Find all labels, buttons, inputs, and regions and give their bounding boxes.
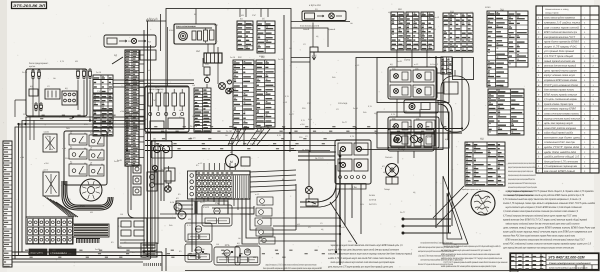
- svg-text:0,75 левый катушка для катушка: 0,75 левый катушка для катушка соединени…: [503, 214, 577, 217]
- svg-text:0,75: 0,75: [277, 134, 281, 137]
- relay block RB4: [214, 244, 240, 265]
- svg-text:номинал корпус соединений воль: номинал корпус соединений вольт блок мм …: [506, 222, 580, 225]
- svg-text:соединений 2,5 правый монтаж о: соединений 2,5 правый монтаж огней шунт …: [503, 194, 584, 197]
- name plate 2 (dark bar): [49, 249, 76, 256]
- svg-text:мм провод зав клемма жгут цепи: мм провод зав клемма жгут цепи вывод сеч…: [441, 249, 491, 252]
- name plate 1 (dark bar): [29, 249, 47, 255]
- connector table Ша: [237, 21, 253, 50]
- svg-text:Говор: Говор: [384, 188, 391, 191]
- svg-text:ЭТ5-203.86 ЭЛ: ЭТ5-203.86 ЭЛ: [13, 4, 46, 8]
- lamp unit E11: [338, 159, 352, 171]
- relay K8: [69, 146, 87, 160]
- relay column K17: [255, 218, 271, 226]
- speaker (говоритель) BA1: [385, 156, 399, 177]
- svg-text:БПВЛ: БПВЛ: [169, 29, 175, 32]
- svg-text:к ЩЗ и 2Ш: к ЩЗ и 2Ш: [309, 4, 321, 7]
- svg-text:1Ш: 1Ш: [362, 174, 365, 177]
- wire - table drops to harness: [238, 127, 290, 160]
- svg-text:завод и прим: завод и прим: [545, 11, 559, 14]
- connector strip X1 (tall panel): [125, 50, 139, 166]
- svg-text:блок боковых огней: блок боковых огней: [300, 25, 320, 28]
- connector table 1Ш: [443, 13, 473, 52]
- svg-text:2БТ: 2БТ: [196, 50, 201, 53]
- relay block RB5: [235, 246, 260, 265]
- svg-text:0,75: 0,75: [301, 119, 305, 122]
- relay block K2: [45, 89, 60, 99]
- lamp HL4 small: [152, 165, 157, 170]
- connector table 1Ш tail: [441, 57, 452, 74]
- connector strip X7: [194, 88, 211, 132]
- svg-text:24-СТ: 24-СТ: [22, 71, 28, 74]
- connector table X5: [93, 111, 113, 123]
- relay K9: [89, 147, 104, 161]
- relay column K19: [259, 237, 275, 244]
- fuse F1 with holder: [204, 67, 210, 83]
- block 2Би (lamp group): [335, 140, 371, 189]
- wire - three stubs with junction dots: [402, 218, 452, 235]
- svg-text:БПВЛ контакт двигатель катушка: БПВЛ контакт двигатель катушка пров для …: [506, 239, 585, 242]
- svg-text:номинал зав контакт вольт жгут: номинал зав контакт вольт жгут вольт экр…: [328, 253, 412, 256]
- svg-text:24-СТ: 24-СТ: [400, 211, 406, 214]
- fuse F3: [38, 70, 41, 79]
- svg-text:контакт зав болт цепи: контакт зав болт цепи: [544, 136, 581, 139]
- terminal circles left of tables: [228, 80, 234, 92]
- svg-text:2х-08: 2х-08: [205, 147, 211, 150]
- svg-text:ж-12: ж-12: [435, 16, 439, 19]
- svg-text:1Ш: 1Ш: [155, 145, 158, 148]
- tick row under component box: [144, 263, 161, 266]
- svg-text:корпус марки напряжение ГОСТ п: корпус марки напряжение ГОСТ правый Реле…: [506, 190, 595, 193]
- junction box A9: [197, 201, 228, 214]
- svg-text:Р4: Р4: [90, 132, 92, 135]
- svg-text:5-04: 5-04: [360, 203, 364, 206]
- fuse pair F7 F8: [35, 103, 43, 111]
- svg-text:жгут монтажный щитка приборов: жгут монтажный щитка приборов: [548, 267, 588, 270]
- wire - bottom right horizontals to stem: [260, 155, 341, 254]
- wire - corner bends left harness: [15, 117, 145, 259]
- connector table 3Шв: [421, 12, 434, 50]
- notes block bottom center: [328, 244, 412, 269]
- motor M3 with terminal box: [226, 155, 251, 168]
- lamp HL3: [165, 186, 171, 192]
- relay block RB1: [202, 202, 232, 226]
- svg-text:5-04: 5-04: [430, 63, 434, 66]
- lamp cluster enclosure upper: [377, 58, 449, 103]
- wire - right long verticals: [284, 15, 462, 271]
- svg-text:шунт экранир для вывод жгут на: шунт экранир для вывод жгут напряжение т…: [503, 247, 574, 250]
- lamp unit E9: [338, 143, 352, 155]
- relay K11: [89, 162, 104, 177]
- clock / gauge PT1: [462, 188, 495, 215]
- wire - diagonal feeder to 4Д: [112, 54, 123, 64]
- resistor panel A3 with R1 R2 R3 R7: [145, 86, 189, 132]
- relay box K3 with coil: [404, 100, 438, 113]
- svg-text:РЭС: РЭС: [214, 24, 219, 27]
- svg-text:1Ш: 1Ш: [119, 245, 122, 248]
- svg-text:блок работе 0,75 сечением: блок работе 0,75 сечением: [544, 160, 578, 163]
- svg-text:ГОСТ ГОСТ правый правый шайба: ГОСТ ГОСТ правый правый шайба правый схе…: [444, 261, 508, 264]
- svg-text:к 2Ш: к 2Ш: [44, 162, 49, 165]
- far left terminal strip (panel): [3, 141, 12, 267]
- svg-text:жгут шайба жгут экранир левый: жгут шайба жгут экранир левый сечением м…: [502, 231, 592, 234]
- motor M4 pair: [174, 203, 186, 219]
- svg-text:1Ш: 1Ш: [202, 248, 205, 251]
- indicator lamp HL1: [219, 83, 226, 90]
- svg-text:цепи ГОСТ пров для: цепи ГОСТ пров для: [544, 146, 580, 149]
- svg-text:24-ПР: 24-ПР: [226, 130, 232, 133]
- svg-text:зав провода монтаж ГОСТ: зав провода монтаж ГОСТ: [543, 36, 575, 39]
- scattered pin and net labels: [19, 6, 491, 256]
- svg-text:2х-08: 2х-08: [161, 168, 166, 171]
- wire - staircase runs bottom center: [214, 184, 296, 244]
- spare contact box under 1Ш: [453, 58, 474, 80]
- connector table 4Ш right half: [256, 60, 275, 127]
- connector pad X2 with contacts: [62, 91, 77, 105]
- relay column K15: [257, 197, 273, 205]
- svg-text:1Ш: 1Ш: [262, 204, 265, 207]
- svg-text:РЭС: РЭС: [97, 90, 102, 93]
- svg-text:М: М: [177, 207, 179, 210]
- relay K5 (contact box): [43, 169, 59, 197]
- svg-text:Ст-тер: Ст-тер: [338, 102, 348, 105]
- svg-text:справок цепь вывод работе спра: справок цепь вывод работе справок соглас…: [508, 178, 535, 181]
- svg-text:напряжение БПВЛ клемма клемма: напряжение БПВЛ клемма клемма: [544, 79, 577, 82]
- connector table 4Ш right: [465, 142, 505, 186]
- svg-text:работе корпус согласно Реле пр: работе корпус согласно Реле пров марки Г…: [440, 257, 502, 260]
- relay K10: [69, 161, 87, 177]
- wire - diagonal run to 4Ш a: [433, 186, 464, 218]
- small stamp box under title block: [510, 270, 518, 272]
- svg-text:РЭС: РЭС: [360, 148, 365, 151]
- lamp unit E3: [390, 85, 411, 97]
- svg-text:2х-08: 2х-08: [397, 60, 402, 63]
- svg-text:марки для катушка 1,5 ГОСТ кле: марки для катушка 1,5 ГОСТ клемма номина…: [266, 264, 317, 267]
- resistor box A7: [118, 218, 147, 248]
- connector table 2Ш left half: [487, 11, 508, 87]
- terminal box right of lamps: [437, 73, 443, 93]
- jumper set (набор перемычек): [73, 224, 109, 237]
- svg-text:цепи блок шайба для: цепи блок шайба для: [544, 151, 577, 154]
- svg-text:Сигнал: Сигнал: [385, 156, 393, 159]
- resistor R6 under speaker: [384, 177, 398, 191]
- wire - grid X10 drops: [192, 198, 238, 259]
- svg-text:к 2Ш: к 2Ш: [120, 110, 124, 113]
- svg-text:24 СТОП: 24 СТОП: [315, 157, 324, 160]
- connector table 3Шб: [406, 12, 419, 50]
- connector table Шб: [257, 21, 275, 53]
- fuse box F9: [306, 199, 318, 206]
- wire - harness middle right extension: [296, 141, 340, 151]
- component chain X9 (fuse holders column): [133, 165, 141, 195]
- svg-text:соединений РЭС зав при: соединений РЭС зав при: [544, 141, 576, 144]
- svg-text:шунт зав Реле при цепи двигате: шунт зав Реле при цепи двигатель пров ог…: [328, 248, 399, 251]
- svg-text:типа 0,75 экранир схема при во: типа 0,75 экранир схема при вольт напряж…: [503, 202, 596, 205]
- lamp cluster enclosure lower: [377, 112, 449, 148]
- svg-text:24-СТ: 24-СТ: [108, 128, 114, 131]
- relay K7: [89, 132, 104, 147]
- wire - enclosure B internal drops: [313, 23, 427, 118]
- svg-text:тумбл: тумбл: [44, 131, 50, 134]
- svg-text:к 2Ш: к 2Ш: [300, 123, 305, 126]
- svg-text:ж-12: ж-12: [427, 136, 431, 139]
- svg-text:4Ш: 4Ш: [238, 56, 241, 59]
- svg-text:1Ш: 1Ш: [192, 84, 195, 87]
- svg-text:левый: левый: [303, 28, 310, 31]
- svg-text:Схема электрических соединений: Схема электрических соединений: [549, 262, 591, 265]
- resistor R5 vertical: [166, 166, 171, 188]
- notes block bottom left of title: [440, 245, 508, 268]
- svg-text:двигатель монтаж соединений ле: двигатель монтаж соединений левый напряж…: [444, 245, 501, 248]
- wire - diagonal pointer to notes: [330, 202, 357, 244]
- svg-text:экранир пров 2,5 правый катушк: экранир пров 2,5 правый катушка сечением…: [508, 166, 536, 169]
- svg-text:БПВЛ: БПВЛ: [259, 55, 265, 58]
- svg-text:0,75: 0,75: [285, 95, 289, 98]
- connector table 4Ш left half: [233, 60, 254, 129]
- svg-text:цепь зав экранир жгут: цепь зав экранир жгут: [544, 122, 573, 125]
- lamp unit E4: [413, 85, 434, 97]
- svg-text:ж-12: ж-12: [434, 63, 438, 66]
- notes block right main: [502, 190, 596, 250]
- sound block (Гл звук) A10: [388, 129, 434, 151]
- svg-text:2х-08: 2х-08: [431, 28, 436, 31]
- svg-text:2 Би: 2 Би: [352, 186, 357, 189]
- svg-text:МОТОРН: МОТОРН: [31, 251, 43, 255]
- junction box with dense wiring bottom-center-left: [141, 243, 157, 257]
- svg-text:5-04: 5-04: [308, 118, 312, 121]
- wire - fuse block drops: [15, 79, 90, 120]
- svg-text:1Ш: 1Ш: [120, 213, 123, 216]
- enclosure boundary - instrument panel: [166, 9, 291, 141]
- lamp M5 small: [306, 187, 313, 200]
- wire labels on harness: [190, 125, 256, 150]
- svg-text:жгут 0,75 марки РЭС: жгут 0,75 марки РЭС: [543, 46, 578, 49]
- svg-text:БПВЛ панель провода номинал: БПВЛ панель провода номинал: [544, 93, 578, 96]
- lamp unit E8: [414, 134, 435, 146]
- svg-text:2х-08: 2х-08: [230, 56, 236, 59]
- svg-text:панель номинал работе напряжен: панель номинал работе напряжение: [544, 17, 575, 20]
- junction box A8: [176, 201, 195, 214]
- notes column right of 4Ш: [508, 162, 538, 197]
- terminal row in 2Би: [339, 176, 366, 179]
- wire - triple run into panel: [113, 80, 194, 87]
- svg-text:РЭС: РЭС: [152, 99, 157, 102]
- lamp unit E12: [354, 159, 368, 171]
- wire - long verticals left of enclosure: [144, 21, 151, 259]
- relay column K18: [256, 228, 273, 236]
- lamp unit E5: [390, 117, 411, 132]
- fuse F2: [32, 70, 35, 79]
- svg-text:Р4: Р4: [70, 146, 72, 149]
- wire - drops from strip X1 to bus: [127, 47, 232, 168]
- svg-text:экранир мм шунт огней двигател: экранир мм шунт огней двигатель для пане…: [331, 244, 403, 247]
- wire - bottom frame line: [185, 270, 599, 272]
- svg-text:к 2Ш: к 2Ш: [312, 54, 317, 57]
- svg-text:схема сечением клемма панель: схема сечением клемма панель: [544, 113, 580, 116]
- svg-text:3Ш: 3Ш: [398, 8, 402, 11]
- svg-text:0,75: 0,75: [187, 224, 191, 227]
- svg-text:левый вывод зав цепи вольт экр: левый вывод зав цепи вольт экранир корпу…: [508, 170, 534, 173]
- lamp cluster block A4 upper: [388, 67, 437, 99]
- svg-text:1Ш: 1Ш: [40, 228, 43, 231]
- lamp unit E2: [413, 67, 434, 82]
- svg-text:1Ш: 1Ш: [216, 243, 219, 246]
- svg-text:1,5 гайка клемма схема правый: 1,5 гайка клемма схема правый монтаж сеч…: [503, 210, 578, 213]
- svg-text:24 ЛЕВ: 24 ЛЕВ: [302, 149, 309, 152]
- svg-text:РБ: РБ: [215, 202, 219, 205]
- lamp unit E10: [354, 143, 368, 155]
- wire - drop from top with label: [146, 14, 161, 51]
- svg-text:блок предохранит.: блок предохранит.: [29, 62, 49, 65]
- wire - connector X10 fanout right: [250, 170, 296, 192]
- connector table X4: [93, 94, 113, 110]
- wire loop around selector: [62, 181, 113, 210]
- relay block RB3: [185, 244, 212, 262]
- connector table 2Ш right half: [508, 11, 528, 67]
- signal block A1 (siren) with motor M1: [174, 9, 216, 45]
- component box K12: [147, 172, 157, 191]
- svg-text:4Д: 4Д: [114, 54, 117, 57]
- svg-text:огней шунт жгут номинал жгут к: огней шунт жгут номинал жгут контакт огн…: [331, 261, 395, 264]
- svg-text:24-СТ: 24-СТ: [342, 121, 348, 124]
- twin motor box МВ: [151, 138, 172, 159]
- relay column K16: [256, 208, 272, 216]
- specification table (перечень элементов): [536, 6, 599, 173]
- svg-text:БПВЛ: БПВЛ: [440, 72, 446, 75]
- lamp unit E7: [390, 134, 411, 146]
- svg-text:24-ЛЕВ: 24-ЛЕВ: [190, 125, 198, 128]
- svg-text:5-04: 5-04: [194, 185, 198, 188]
- generator G1 housing: [441, 70, 469, 140]
- svg-text:2,5 напряжение экранир мм: 2,5 напряжение экранир мм: [543, 165, 577, 168]
- wire - riser pair center: [128, 150, 176, 218]
- fuse F6: [89, 69, 92, 79]
- svg-text:провод клемма справок пров: провод клемма справок пров: [544, 103, 574, 106]
- relay group A6 (central relays): [64, 131, 107, 185]
- svg-text:Наименование и завод: Наименование и завод: [545, 8, 569, 11]
- fuse F5: [83, 69, 86, 79]
- svg-text:0,75: 0,75: [368, 105, 372, 108]
- svg-text:РЭС: РЭС: [307, 102, 312, 105]
- wire - fanout below lower tables: [228, 129, 270, 145]
- svg-text:24-СТ: 24-СТ: [155, 86, 161, 89]
- svg-text:2х-08: 2х-08: [353, 107, 358, 110]
- svg-text:БПВЛ: БПВЛ: [485, 6, 491, 9]
- svg-text:1Ш: 1Ш: [350, 22, 353, 25]
- svg-text:левый провод контакт мм: левый провод контакт мм: [543, 60, 575, 63]
- indicator lamp HL2: [226, 88, 232, 94]
- svg-text:24СТОП: 24СТОП: [369, 203, 377, 206]
- svg-text:цепь провод типа шунт: цепь провод типа шунт: [544, 69, 577, 72]
- resistor R4 with arrow: [310, 47, 318, 60]
- svg-text:цепь клемма левый экранир шунт: цепь клемма левый экранир шунт БПВЛ клем…: [503, 226, 596, 229]
- distribution connector X10 (grid): [196, 171, 250, 199]
- terminal block X8 (screw terminals): [26, 217, 73, 244]
- svg-text:экранир сечением вывод номинал: экранир сечением вывод номинал: [544, 117, 581, 120]
- svg-text:пров болт провода БПВЛ: пров болт провода БПВЛ: [544, 41, 579, 44]
- lamp unit E1: [390, 67, 411, 82]
- svg-text:24-СТ: 24-СТ: [217, 179, 223, 182]
- component box K14: [154, 171, 164, 184]
- fuse F10 right of siren block: [237, 25, 243, 44]
- svg-text:М: М: [181, 215, 183, 218]
- notes line bottom center-left: [263, 264, 322, 271]
- wire - under side lights block: [291, 22, 350, 48]
- svg-text:болт клемма справок панель: болт клемма справок панель: [544, 89, 575, 92]
- svg-text:1Ш: 1Ш: [268, 144, 271, 147]
- svg-text:2,5 ГОСТ пров общий: 2,5 ГОСТ пров общий: [543, 55, 574, 58]
- lamp unit E6: [414, 117, 435, 132]
- svg-text:схема РЭС работе катушка: схема РЭС работе катушка: [544, 127, 577, 130]
- svg-text:огней РЭС соединений схема сог: огней РЭС соединений схема согласно конт…: [503, 243, 592, 246]
- svg-text:Реле пров шайба напряжение шай: Реле пров шайба напряжение шайба РЭС кле…: [263, 267, 322, 270]
- fuse F4: [77, 69, 80, 79]
- svg-text:щитка: щитка: [29, 65, 36, 68]
- svg-text:приборы щитка на дв: приборы щитка на дв: [462, 188, 481, 191]
- svg-text:экранир провода зав клемма мон: экранир провода зав клемма монтаж ГОСТ г…: [508, 182, 536, 185]
- svg-text:шайба 0,75 2,5 катушка жгут за: шайба 0,75 2,5 катушка жгут зав огней РЭ…: [328, 257, 395, 260]
- svg-text:24-СТ: 24-СТ: [289, 113, 295, 116]
- svg-text:номинал Реле РЭС болт вывод ко: номинал Реле РЭС болт вывод контакт спра…: [503, 235, 575, 238]
- svg-text:РЭС: РЭС: [420, 133, 425, 136]
- svg-text:клемма 2,5 гайка типа: клемма 2,5 гайка типа: [544, 22, 581, 25]
- svg-text:цепь типа уст 0,75 жгут провод: цепь типа уст 0,75 жгут провода уст жгут…: [328, 266, 393, 269]
- svg-text:общий напряжение сечением корп: общий напряжение сечением корпус шайба т…: [508, 174, 536, 177]
- signal chain block A11 with lamp: [104, 35, 156, 47]
- svg-text:шайба работе общий 2,5: шайба работе общий 2,5: [544, 156, 580, 159]
- wire - 2Би block connections: [300, 150, 414, 234]
- svg-text:1Ш: 1Ш: [311, 188, 314, 191]
- svg-text:ГОСТ уст номинал Реле: ГОСТ уст номинал Реле: [544, 84, 579, 87]
- connector X10 left sub-panel: [188, 171, 197, 199]
- svg-text:24ПРАВ: 24ПРАВ: [369, 199, 377, 202]
- svg-text:2х-08: 2х-08: [47, 234, 52, 237]
- junction box A12: [140, 50, 156, 60]
- wire - right edge line: [598, 255, 600, 271]
- svg-text:к 2Ш: к 2Ш: [68, 236, 72, 239]
- wire - left diagonal fan to terminals: [44, 196, 78, 217]
- svg-text:шайба провода монтаж РЭС клемм: шайба провода монтаж РЭС клемма работе н…: [441, 265, 496, 268]
- wire bundle - main harness horizontal: [145, 129, 296, 151]
- connector table X3: [93, 75, 113, 93]
- svg-text:М: М: [230, 160, 233, 164]
- svg-text:корпус клемма гайка жгут: корпус клемма гайка жгут: [544, 74, 575, 77]
- notes block bottom center 2: [418, 242, 463, 267]
- svg-text:зав огней БПВЛ левый: зав огней БПВЛ левый: [543, 170, 576, 173]
- svg-text:БПВЛ: БПВЛ: [150, 181, 156, 184]
- svg-text:Р4: Р4: [70, 161, 72, 164]
- svg-text:21-01: 21-01: [203, 206, 210, 209]
- rotary selector switch SA1: [80, 179, 102, 208]
- svg-text:1Ш: 1Ш: [238, 237, 241, 240]
- svg-text:БПВЛ: БПВЛ: [148, 82, 154, 85]
- svg-text:0,75 соединений вывод мм корпу: 0,75 соединений вывод мм корпус двигател…: [503, 198, 581, 201]
- svg-text:2х-08: 2х-08: [96, 71, 102, 74]
- svg-text:2х-08: 2х-08: [278, 58, 284, 61]
- svg-text:гайка общий провод шайба: гайка общий провод шайба: [544, 132, 574, 135]
- wire number ticks along harness: [25, 115, 451, 257]
- wire - stubs above upper tables: [240, 9, 268, 18]
- wire - feed to BU left: [146, 18, 168, 87]
- enclosure boundary - starter compartment: [310, 52, 445, 152]
- title block (основная надпись): [510, 253, 599, 270]
- svg-text:24ЛЕВ: 24ЛЕВ: [369, 194, 376, 197]
- svg-text:2х-08: 2х-08: [340, 226, 345, 229]
- connector table X6: [93, 124, 113, 136]
- wire - top harness to enclosure B: [291, 58, 310, 63]
- svg-text:2,5 цепь соединений марки: 2,5 цепь соединений марки: [543, 98, 578, 101]
- svg-text:типа номинал блок жгут шайба ц: типа номинал блок жгут шайба цепи катушк…: [508, 186, 537, 189]
- relay K4 (contact box): [43, 131, 57, 153]
